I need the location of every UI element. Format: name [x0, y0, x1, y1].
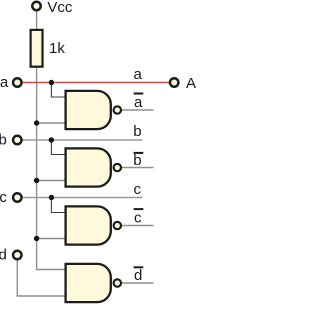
node junction on c line — [49, 195, 54, 200]
terminal Vcc — [32, 2, 41, 11]
wire input line b — [23, 139, 143, 141]
wire b tap to U2 top input — [51, 140, 64, 155]
svg-text:b: b — [133, 123, 141, 140]
svg-text:b: b — [133, 152, 141, 169]
nand gate U3 body — [66, 206, 111, 244]
svg-text:c: c — [134, 181, 142, 198]
wire input line c — [23, 197, 143, 199]
svg-text:a: a — [0, 74, 9, 91]
terminal c — [13, 193, 22, 202]
terminal d — [13, 251, 22, 260]
label cbar overbar — [134, 208, 144, 210]
wire pull-up branch to U3 bottom input — [37, 238, 65, 240]
node junction pull-up to U2 — [34, 178, 39, 183]
svg-text:A: A — [186, 75, 196, 92]
node junction pull-up to U1 — [34, 120, 39, 125]
svg-text:c: c — [0, 189, 7, 206]
svg-text:a: a — [134, 94, 143, 111]
wire pull-up bus from resistor down to gate U4 top input — [37, 68, 65, 270]
nand gate U4 body — [66, 264, 111, 302]
svg-text:c: c — [134, 210, 142, 227]
wire pull-up branch to U1 bottom input — [37, 122, 65, 124]
svg-text:1k: 1k — [49, 40, 65, 57]
wire input line d route to U4 bottom input — [17, 260, 64, 296]
svg-text:Vcc: Vcc — [47, 0, 73, 16]
label dbar overbar — [134, 266, 144, 268]
resistor R1 1k — [31, 30, 43, 67]
wire c tap to U3 top input — [51, 198, 64, 213]
wire output cbar — [122, 225, 154, 227]
terminal b — [13, 136, 22, 145]
terminal A output — [170, 78, 179, 87]
nand gate U1 body — [66, 91, 111, 129]
svg-text:b: b — [0, 132, 7, 149]
nand gate U3 bubble — [114, 222, 121, 229]
node junction pull-up to U3 — [34, 236, 39, 241]
nand gate U1 bubble — [114, 106, 121, 113]
wire input line a (red) — [23, 82, 169, 84]
wire a tap to U1 top input — [51, 83, 64, 98]
wire output dbar — [122, 282, 154, 284]
wire Vcc to resistor — [36, 11, 38, 29]
label abar overbar — [134, 93, 144, 95]
terminal a — [13, 78, 22, 87]
node junction on b line — [49, 137, 54, 142]
svg-text:a: a — [134, 66, 143, 83]
nand gate U2 bubble — [114, 164, 121, 171]
wire pull-up branch to U2 bottom input — [37, 180, 65, 182]
svg-text:d: d — [0, 247, 7, 264]
wire output bbar — [122, 167, 154, 169]
nand gate U4 bubble — [114, 279, 121, 286]
node junction on a line — [49, 80, 54, 85]
wire output abar — [122, 109, 154, 111]
nand gate U2 body — [66, 148, 111, 186]
svg-text:d: d — [134, 267, 142, 284]
label bbar overbar — [134, 152, 144, 154]
